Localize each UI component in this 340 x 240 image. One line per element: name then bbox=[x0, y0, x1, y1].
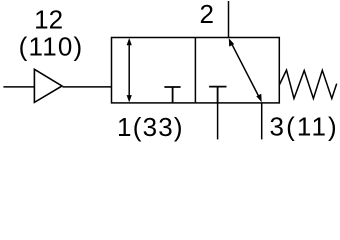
valve body outline (2-position box) bbox=[112, 38, 280, 103]
port 3 line (bottom) bbox=[261, 103, 263, 139]
svg-text:12: 12 bbox=[34, 4, 63, 34]
wire pilot input line bbox=[3, 86, 34, 88]
svg-text:2: 2 bbox=[199, 0, 213, 29]
spring return bbox=[279, 70, 336, 99]
port 1 line (bottom) bbox=[217, 103, 219, 139]
right position: diagonal flow path double arrow (2 to 3) bbox=[229, 38, 262, 102]
svg-text:(110): (110) bbox=[19, 32, 84, 62]
right position: blocked port 1 T symbol bbox=[209, 87, 226, 103]
left position: blocked port T symbol bbox=[164, 87, 180, 103]
pilot triangle (pneumatic pilot actuator) bbox=[34, 69, 62, 102]
left position: vertical flow path double arrow bbox=[127, 38, 132, 102]
port 2 line (top) bbox=[228, 1, 230, 38]
wire pilot to valve body bbox=[63, 86, 112, 88]
svg-text:1(33): 1(33) bbox=[117, 112, 184, 142]
svg-text:3(11): 3(11) bbox=[270, 112, 339, 142]
divider between positions bbox=[194, 38, 196, 103]
